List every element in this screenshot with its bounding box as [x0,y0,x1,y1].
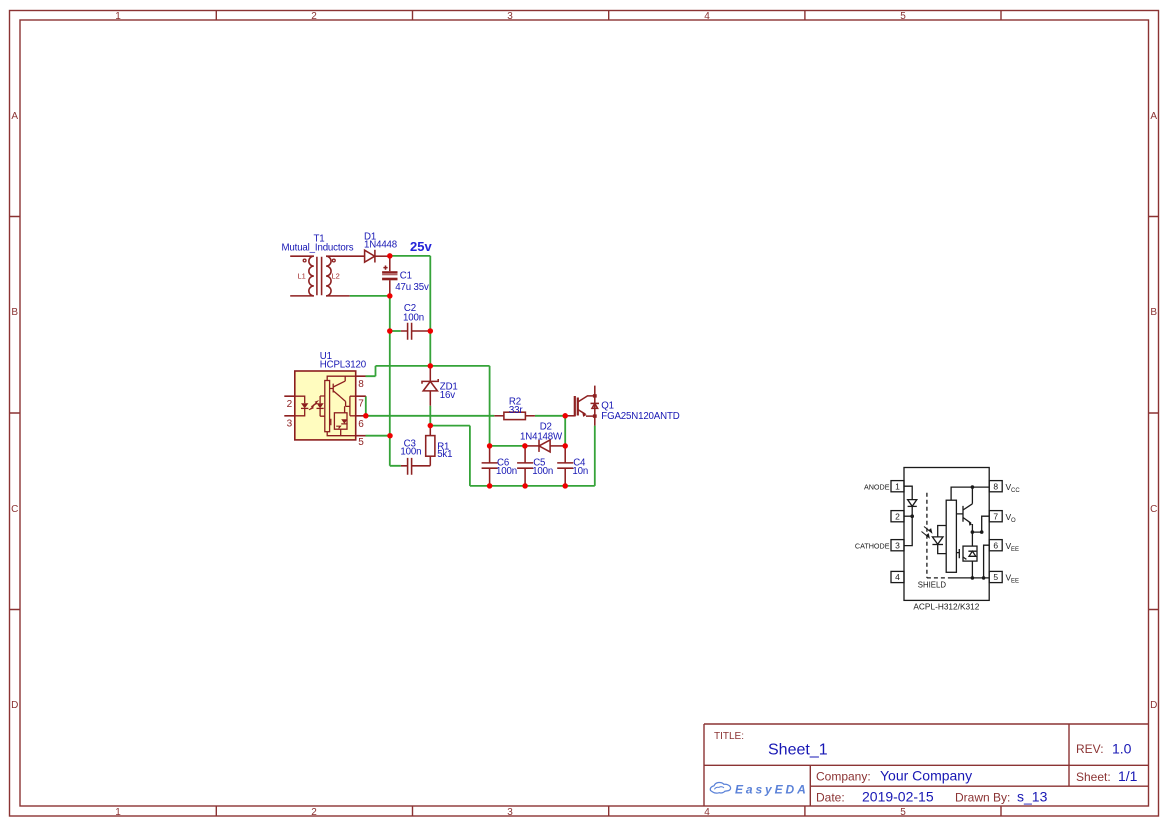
R1 labels [437,441,452,460]
ACPL label Vee pin6 [1006,541,1020,553]
svg-text:25v: 25v [410,239,432,254]
junction dots [363,253,568,489]
svg-text:O: O [1011,518,1016,524]
ACPL pin numbers [895,481,998,582]
capacitor C1 polarized [383,256,389,296]
wire R1 junction to bottom rail [430,426,489,486]
svg-text:7: 7 [993,511,998,521]
svg-text:EE: EE [1011,547,1019,553]
svg-text:10n: 10n [572,466,588,477]
svg-text:EE: EE [1011,579,1019,585]
ACPL label Vo [1006,512,1017,524]
C4 labels [572,457,588,477]
transformer T1 [290,256,364,296]
svg-text:3: 3 [287,419,293,430]
U1 pin numbers [287,379,365,448]
svg-text:5: 5 [900,11,906,22]
svg-text:EasyEDA: EasyEDA [735,783,809,797]
U1 pin stubs [284,376,366,436]
C6 labels [496,457,517,477]
svg-text:1N4148W: 1N4148W [520,432,563,443]
svg-text:100n: 100n [403,312,424,323]
ACPL pin 4 box [891,571,904,582]
U1 labels [320,351,367,371]
svg-text:2: 2 [895,511,900,521]
D2 labels [520,421,563,442]
svg-text:CC: CC [1011,488,1020,494]
svg-text:1: 1 [895,481,900,491]
IGBT Q1 [565,386,599,426]
ACPL top rail to pin8 [951,487,989,500]
svg-text:HCPL3120: HCPL3120 [320,359,367,370]
svg-text:ACPL-H312/K312: ACPL-H312/K312 [913,602,979,612]
svg-text:A: A [1150,111,1157,122]
Q1 labels [601,400,679,422]
ACPL pin 2 box [891,511,904,522]
ACPL pin6 wire [984,545,990,578]
ACPL driver bar [946,500,956,572]
Q1 emitter arrow [582,412,586,417]
capacitor C2 [401,323,431,340]
svg-text:4: 4 [704,11,710,22]
ACPL npn emitter arrow [969,522,972,526]
wire T1 bottom to C1 [350,296,401,466]
wire net vcc horizontal to pin8 [366,366,490,446]
ACPL npn transistor [956,487,989,532]
svg-text:4: 4 [895,572,900,582]
svg-text:D: D [11,700,18,711]
svg-text:C1: C1 [400,271,412,282]
svg-text:1: 1 [115,11,121,22]
svg-text:s_13: s_13 [1017,789,1048,805]
ACPL pin 3 box [891,540,904,551]
ruler numbers top [115,11,906,22]
svg-text:2: 2 [311,807,317,818]
wire zener bottom to R1 top [429,406,431,426]
svg-text:CATHODE: CATHODE [855,541,890,550]
svg-text:Q1: Q1 [601,400,614,411]
svg-text:FGA25N120ANTD: FGA25N120ANTD [601,411,679,422]
ACPL pin 6 box [989,540,1002,551]
svg-text:REV:: REV: [1076,742,1104,756]
ACPL pin 5 box [989,571,1002,582]
R2 labels [509,397,523,417]
T1 winding labels L1 L2 [298,272,340,281]
title block texts [714,731,1138,805]
svg-text:L2: L2 [332,272,340,281]
Q1 connection blobs [593,394,597,418]
ACPL pin2 junction dot [910,514,914,518]
ACPL output fet [956,532,977,578]
svg-text:5: 5 [358,437,364,448]
ruler letters left [11,111,18,711]
ACPL emitter node dots [971,530,984,534]
EasyEDA logo [710,782,808,796]
svg-text:100n: 100n [400,447,421,458]
C3 labels [400,438,421,457]
U1 light arrows [309,400,320,410]
C1 labels [395,271,429,293]
ruler letters right [1150,111,1157,711]
C2 labels [403,303,424,323]
svg-text:Drawn By:: Drawn By: [955,791,1010,805]
capacitor C6 [482,446,498,486]
U1 output diode inside [341,419,347,424]
C5 labels [532,457,553,477]
ACPL fet source dot on rail [971,576,975,580]
svg-text:8: 8 [993,481,998,491]
svg-text:3: 3 [507,807,513,818]
U1 LED [301,403,324,408]
svg-text:Sheet:: Sheet: [1076,770,1111,784]
svg-text:5k1: 5k1 [437,449,452,460]
svg-text:Company:: Company: [816,770,871,784]
ZD1 labels [440,381,458,401]
ACPL pin6 rail dot [982,576,986,580]
diode D1 1N4448 [365,250,390,263]
capacitor C5 [517,446,533,486]
svg-text:B: B [1150,307,1157,318]
svg-text:5: 5 [900,807,906,818]
wire pin7 to pin6 jog [365,396,367,416]
svg-text:Sheet_1: Sheet_1 [768,742,828,759]
T1 labels [282,234,354,254]
wire bottom rail [490,485,595,487]
D1 labels [364,231,397,250]
zener diode ZD1 [422,366,438,406]
U1 internal circuit [295,376,356,436]
svg-text:8: 8 [358,379,364,390]
ACPL light arrows [922,527,932,538]
svg-text:6: 6 [993,540,998,550]
diode D2 1N4148W [525,440,565,452]
ACPL photodiode [932,526,946,554]
svg-text:16v: 16v [440,390,455,401]
svg-text:L1: L1 [298,272,306,281]
svg-text:47u 35v: 47u 35v [395,282,429,293]
ACPL label Vee pin5 [1006,573,1020,585]
svg-text:C: C [11,504,18,515]
svg-text:5: 5 [993,572,998,582]
svg-text:7: 7 [358,399,364,410]
ACPL collector junction dot [971,485,975,489]
svg-text:1N4448: 1N4448 [364,239,397,250]
svg-text:Mutual_Inductors: Mutual_Inductors [282,242,354,253]
ACPL bottom rail [950,577,989,579]
ACPL shield dashed line [927,493,950,578]
svg-text:3: 3 [507,11,513,22]
svg-text:D: D [1150,700,1157,711]
ACPL label Vcc [1006,482,1021,494]
ACPL input LED [904,486,917,545]
svg-text:2019-02-15: 2019-02-15 [862,789,934,805]
svg-text:4: 4 [704,807,710,818]
svg-text:A: A [11,111,18,122]
ACPL pin 1 box [891,481,904,492]
wire gate net pin6 row [366,415,565,417]
svg-text:Your Company: Your Company [880,768,972,784]
svg-text:2: 2 [287,399,293,410]
svg-text:SHIELD: SHIELD [918,580,947,589]
svg-text:6: 6 [358,419,364,430]
wire Q1 emitter down [594,426,596,486]
resistor R2 [494,412,535,419]
svg-text:100n: 100n [532,466,553,477]
svg-text:TITLE:: TITLE: [714,731,744,742]
wire D2 row [490,416,566,446]
svg-text:2: 2 [311,11,317,22]
svg-text:3: 3 [895,540,900,550]
svg-text:ANODE: ANODE [864,482,890,491]
svg-text:1.0: 1.0 [1112,741,1132,757]
svg-text:Date:: Date: [816,791,845,805]
wire pin5 net [366,435,391,437]
svg-text:B: B [11,307,18,318]
title block lines [704,724,1149,806]
svg-text:1: 1 [115,807,121,818]
svg-text:1/1: 1/1 [1118,768,1138,784]
ACPL pin 7 box [989,511,1002,522]
optocoupler U1 body [295,371,356,440]
capacitor C4 [557,446,573,486]
ruler numbers bottom [115,807,906,818]
svg-text:33r: 33r [509,405,523,416]
svg-text:C: C [1150,504,1157,515]
ACPL-H312 block diagram U2 body [904,468,989,601]
svg-text:100n: 100n [496,466,517,477]
ACPL pin 8 box [989,481,1002,492]
C2 wire stubs green [390,330,401,332]
resistor R1 [426,426,435,457]
capacitor C3 [401,456,431,475]
wire net 25v top [390,256,431,366]
